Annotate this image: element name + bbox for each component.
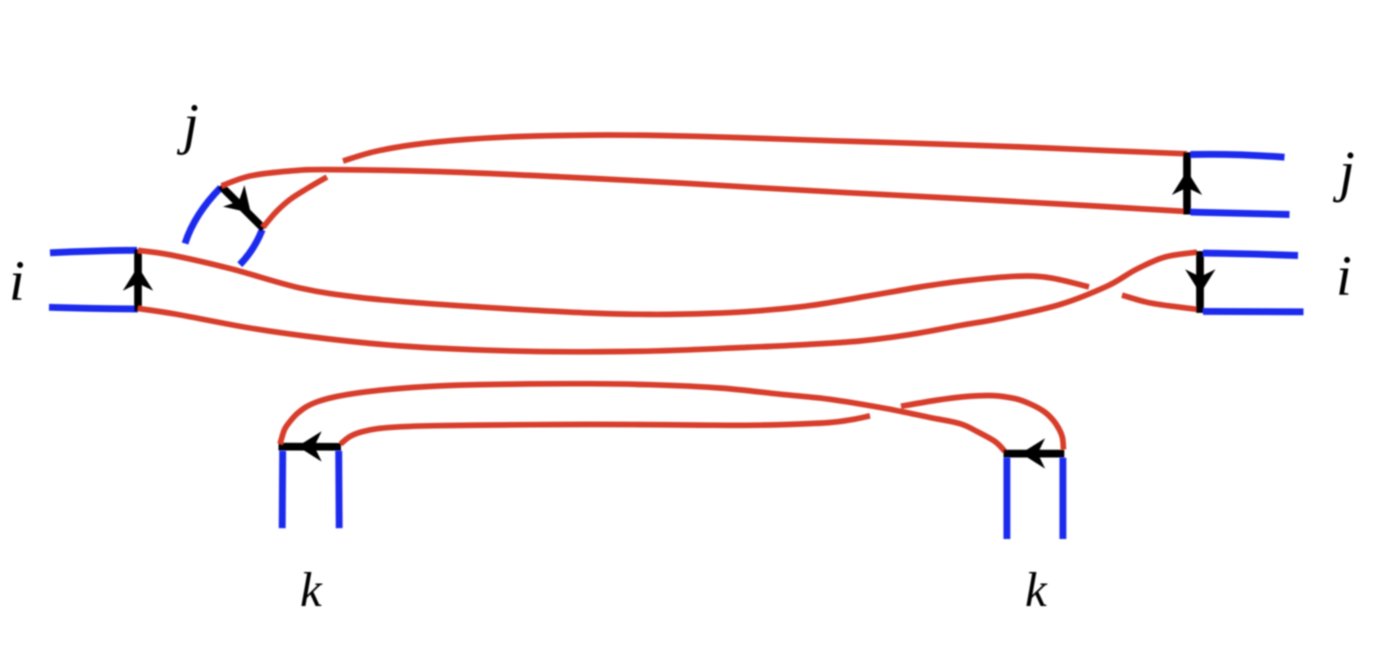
wire: red from left-j bar top, long lower curve to right-j bottom	[222, 170, 1188, 212]
band j (left) blue edge arc left	[185, 188, 221, 244]
band i (left) blue top edge	[50, 250, 137, 253]
band k (right) black core bar	[1004, 450, 1065, 458]
band i (left) up arrowhead	[123, 267, 153, 291]
band i (right) blue top edge	[1203, 253, 1298, 255]
band i (left) blue bottom edge	[49, 307, 138, 309]
svg-text:i: i	[1336, 245, 1352, 308]
band k (left) left arrowhead	[298, 431, 322, 461]
svg-text:i: i	[9, 250, 25, 313]
band j (left) arrowhead pointing down-right	[223, 185, 262, 224]
band j (left) black core bar (diagonal)	[221, 186, 264, 229]
band k (left) blue right edge	[335, 451, 342, 528]
band i (right) down arrowhead	[1185, 269, 1215, 293]
wire: red strand from left-i bottom to right-i top (over crossing)	[138, 252, 1197, 352]
band i (left) black core bar	[134, 249, 142, 311]
band i (right) black core bar	[1196, 251, 1204, 313]
band k (left) blue left edge	[279, 451, 286, 528]
svg-text:k: k	[1025, 562, 1048, 617]
wire: red inner bottom loop piece b (over right-k top, to right corner)	[901, 395, 1064, 449]
band j (right) blue top edge	[1191, 154, 1285, 157]
band j (right) up arrowhead	[1172, 171, 1202, 195]
wire: red strand from left-i top to right-i bottom (part 2 after gap)	[1122, 295, 1197, 309]
band k (right) blue right edge	[1059, 458, 1066, 539]
wire: red strand from left-i top to right-i bottom (part 1, under crossing)	[138, 250, 1089, 314]
band j (left) blue edge arc right	[240, 230, 262, 265]
band j (right) blue bottom edge	[1191, 212, 1290, 214]
band k (right) blue left edge	[1003, 458, 1010, 539]
band k (left) black core bar	[279, 443, 342, 451]
wire: red inner bottom loop piece a (to gap)	[341, 416, 871, 444]
wire: red from left-j bar bottom rising (under-crossing piece)	[263, 177, 327, 227]
band k (right) left arrowhead	[1021, 438, 1045, 468]
wire: red outer bottom loop (over at bottom crossing)	[280, 384, 1005, 452]
svg-text:k: k	[300, 562, 323, 617]
wire: long top red curve to right-j top (after gap)	[343, 135, 1187, 161]
band j (right) black core bar	[1183, 152, 1191, 214]
band i (right) blue bottom edge	[1203, 308, 1304, 315]
